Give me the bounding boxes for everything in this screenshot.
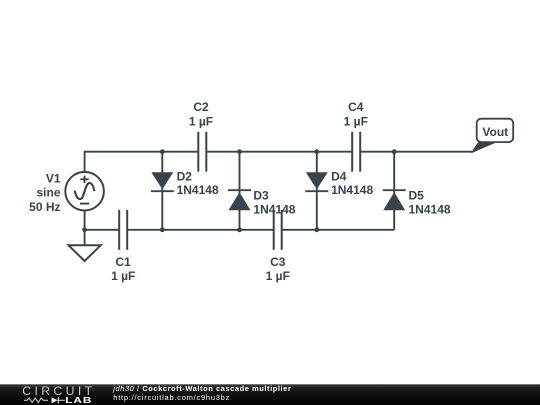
svg-text:1N4148: 1N4148 bbox=[331, 183, 373, 197]
svg-text:http://circuitlab.com/c9hu3bz: http://circuitlab.com/c9hu3bz bbox=[113, 393, 230, 402]
capacitor C1 bbox=[111, 210, 135, 283]
diode D3 bbox=[228, 188, 296, 216]
capacitor C2 bbox=[189, 100, 213, 172]
wire ground stem bbox=[84, 230, 86, 246]
footer title text bbox=[112, 384, 291, 402]
svg-text:C4: C4 bbox=[348, 100, 364, 114]
wire top segment C4 to Vout bbox=[360, 151, 473, 153]
wire D5 branch bbox=[393, 152, 395, 230]
svg-text:jdh30 / Cockcroft-Walton casca: jdh30 / Cockcroft-Walton cascade multipl… bbox=[112, 384, 291, 393]
wire top segment V1 to C2 bbox=[85, 152, 199, 172]
svg-text:Vout: Vout bbox=[482, 125, 508, 139]
capacitor C3 bbox=[266, 210, 290, 283]
svg-text:V1: V1 bbox=[46, 171, 61, 185]
node bottom D2 bbox=[160, 227, 165, 232]
svg-text:D5: D5 bbox=[409, 188, 425, 202]
svg-text:1N4148: 1N4148 bbox=[409, 203, 451, 217]
wire top segment C2 to C4 bbox=[206, 151, 352, 153]
capacitor C4 bbox=[344, 100, 368, 172]
svg-text:50 Hz: 50 Hz bbox=[29, 200, 60, 214]
voltage source V1 bbox=[29, 171, 104, 214]
node top D3 bbox=[237, 149, 242, 154]
svg-text:sine: sine bbox=[36, 186, 60, 200]
wire bottom segment C3 to D5 bbox=[282, 229, 395, 231]
svg-text:D2: D2 bbox=[177, 170, 193, 184]
svg-text:LAB: LAB bbox=[65, 396, 92, 405]
node Vout flag bbox=[472, 119, 513, 153]
node bottom V1 bbox=[82, 227, 87, 232]
svg-text:1N4148: 1N4148 bbox=[253, 203, 295, 217]
node top D2 bbox=[160, 149, 165, 154]
svg-text:C3: C3 bbox=[270, 255, 286, 269]
node top D5 bbox=[392, 149, 397, 154]
svg-text:D4: D4 bbox=[331, 170, 347, 184]
wire D3 branch bbox=[239, 152, 241, 230]
svg-text:1 µF: 1 µF bbox=[189, 115, 213, 129]
diode D2 bbox=[151, 170, 219, 197]
diode D5 bbox=[383, 188, 451, 216]
svg-text:1 µF: 1 µF bbox=[111, 269, 135, 283]
svg-text:1 µF: 1 µF bbox=[344, 115, 368, 129]
ground bbox=[69, 245, 101, 261]
node bottom D3 bbox=[237, 227, 242, 232]
svg-text:1N4148: 1N4148 bbox=[177, 183, 219, 197]
svg-text:D3: D3 bbox=[253, 188, 269, 202]
footer logo CIRCUIT LAB bbox=[22, 384, 95, 405]
svg-text:1 µF: 1 µF bbox=[266, 269, 290, 283]
svg-text:C2: C2 bbox=[193, 100, 209, 114]
svg-text:C1: C1 bbox=[116, 255, 132, 269]
wire bottom segment C1 to C3 bbox=[127, 229, 274, 231]
diode D4 bbox=[305, 170, 373, 197]
wire D4 branch bbox=[316, 152, 318, 230]
footer bar bbox=[0, 384, 540, 405]
node bottom D4 bbox=[314, 227, 319, 232]
node top D4 bbox=[314, 149, 319, 154]
wire bottom segment V1 to C1 bbox=[85, 211, 120, 230]
wire D2 branch bbox=[161, 152, 163, 230]
